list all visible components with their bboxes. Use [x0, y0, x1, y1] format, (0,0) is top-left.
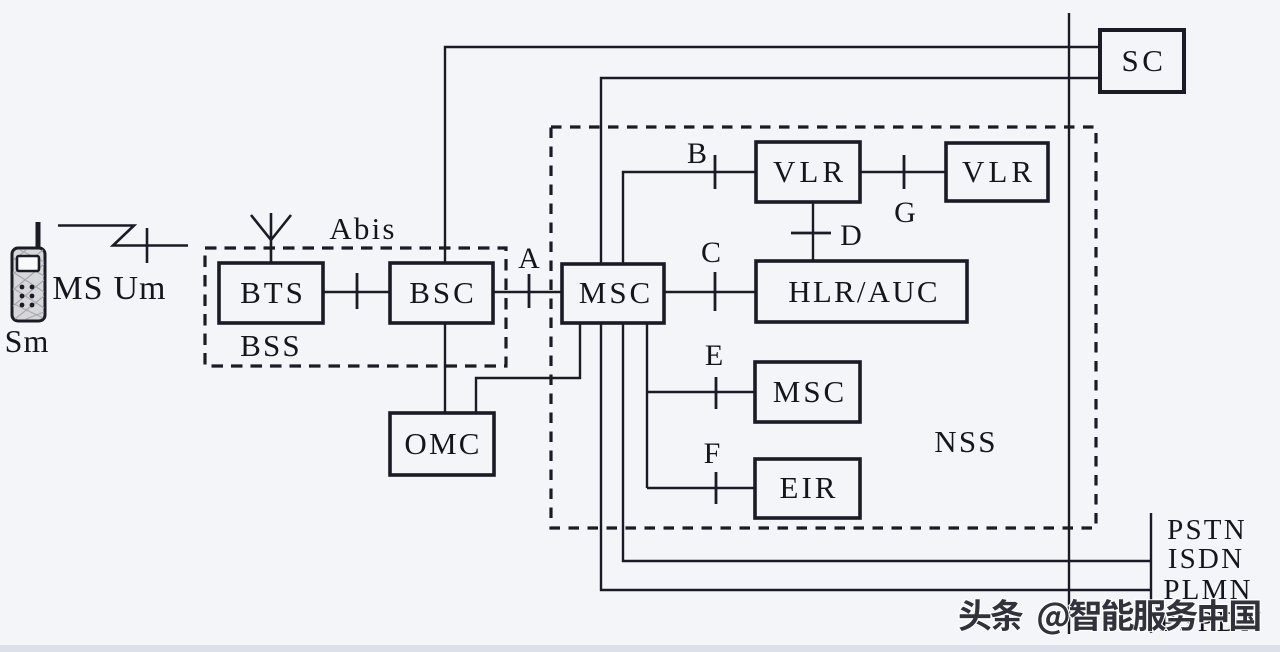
svg-text:EIR: EIR [780, 470, 839, 505]
bottom gray strip [0, 645, 1280, 652]
svg-text:PSTN: PSTN [1167, 514, 1247, 546]
NSS dashed box [551, 127, 1096, 528]
svg-text:ISDN: ISDN [1168, 543, 1244, 575]
svg-text:OMC: OMC [404, 426, 481, 461]
svg-text:HLR/AUC: HLR/AUC [788, 274, 939, 309]
svg-text:BSC: BSC [409, 275, 477, 310]
wire BSC bottom to OMC [444, 323, 446, 413]
wire G: VLR to VLR [860, 171, 946, 173]
svg-text:Sm: Sm [5, 323, 50, 359]
tick D interface [791, 232, 831, 235]
svg-text:BTS: BTS [240, 275, 306, 310]
wire F: to EIR [647, 487, 755, 489]
MSC box 2 [755, 362, 860, 422]
svg-text:A: A [518, 242, 540, 275]
tick C interface [714, 272, 717, 311]
tick E interface [715, 377, 718, 409]
phone body MS [12, 248, 45, 321]
VLR box 1 [756, 142, 860, 202]
HLR/AUC box [756, 261, 967, 322]
wire: line from MSC top to SC [601, 78, 1100, 264]
wire C: MSC to HLR/AUC [664, 291, 756, 293]
svg-text:B: B [687, 137, 707, 170]
svg-text:BSS: BSS [240, 328, 302, 363]
wire MSC bottom to E and F branches [646, 323, 648, 488]
BTS antenna [251, 213, 291, 263]
MSC box [562, 264, 664, 323]
wire BSC-MSC [493, 291, 562, 293]
wire D: VLR to HLR/AUC [812, 202, 814, 261]
watermark 头条@智能服务中国 [959, 599, 1259, 635]
svg-text:VLR: VLR [773, 154, 847, 189]
svg-text:F: F [704, 437, 721, 470]
wire B: MSC top to VLR [623, 172, 756, 264]
wire: line from BSC top to SC [445, 47, 1100, 263]
Um radio link zigzag [58, 226, 188, 246]
svg-text:SC: SC [1122, 43, 1167, 78]
VLR box 2 [946, 143, 1048, 201]
tick F interface [715, 472, 718, 504]
OMC box [390, 413, 494, 475]
Um zigzag tick [146, 228, 149, 263]
svg-text:NSS: NSS [934, 424, 997, 459]
SC box [1100, 30, 1184, 92]
BSC box [390, 263, 493, 323]
right vertical line at network labels [1150, 513, 1152, 633]
svg-text:MS: MS [52, 270, 103, 307]
tick G interface [903, 155, 906, 189]
wire MSC bottom to ISDN line [623, 323, 1151, 561]
tick A interface [528, 274, 531, 308]
svg-text:Um: Um [114, 270, 167, 307]
EIR box [755, 459, 860, 518]
svg-text:MSC: MSC [773, 374, 847, 409]
long vertical trunk line [1068, 13, 1070, 634]
wire BTS-BSC [323, 291, 390, 293]
phone antenna (MS) [36, 222, 41, 250]
phone body hatch [13, 250, 44, 319]
svg-text:E: E [705, 339, 723, 372]
svg-text:D: D [840, 219, 862, 252]
BTS box [219, 263, 323, 323]
tick B interface [714, 155, 717, 189]
phone screen [17, 256, 39, 271]
wire MSC bottom to PLMN line [601, 323, 1151, 590]
wire E: to MSC2 [647, 391, 755, 393]
BSS dashed box [205, 248, 506, 366]
phone keypad dots [20, 285, 35, 308]
svg-text:Abis: Abis [329, 211, 396, 246]
svg-text:MSC: MSC [579, 275, 653, 310]
svg-text:C: C [701, 236, 721, 269]
svg-text:VLR: VLR [962, 154, 1036, 189]
tick Abis interface [356, 273, 359, 309]
svg-text:G: G [894, 196, 916, 229]
wire MSC bottom to OMC [476, 323, 580, 413]
